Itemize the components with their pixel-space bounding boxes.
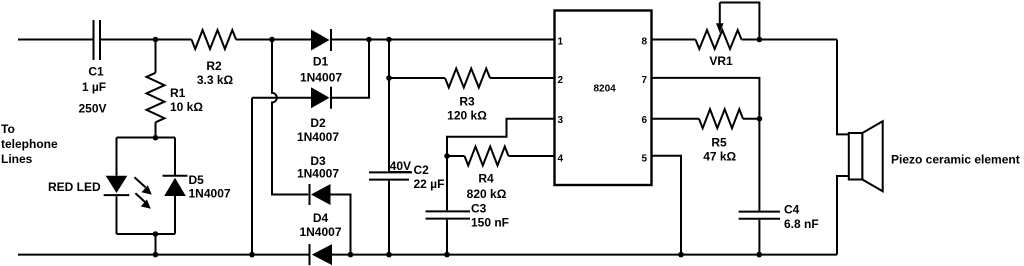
svg-text:250V: 250V <box>78 102 106 116</box>
resistor R4 <box>465 147 509 202</box>
wire LED box bottom rail <box>117 233 176 235</box>
svg-text:D4: D4 <box>313 211 329 225</box>
svg-text:6: 6 <box>641 115 647 126</box>
svg-text:120 kΩ: 120 kΩ <box>447 109 487 123</box>
capacitor C4 6.8nF <box>739 119 819 255</box>
wire R4 left lead <box>447 155 465 157</box>
node label To telephone Lines <box>1 122 58 166</box>
potentiometer VR1 <box>696 3 760 69</box>
node junction LED box top <box>153 135 159 141</box>
wire piezo top lead <box>837 40 849 135</box>
svg-text:3.3 kΩ: 3.3 kΩ <box>197 73 234 87</box>
svg-text:1N4007: 1N4007 <box>300 71 342 85</box>
op-amp U1 8204 IC body <box>555 11 652 186</box>
svg-text:150 nF: 150 nF <box>471 216 509 230</box>
svg-text:5: 5 <box>641 153 647 164</box>
wire pin 3 staircase to R4 node <box>447 119 555 156</box>
wire D2 cathode up to DC rail <box>331 40 369 98</box>
wire R5 to C4 node <box>743 118 759 120</box>
svg-text:D1: D1 <box>313 55 329 69</box>
svg-text:Lines: Lines <box>1 152 33 166</box>
wire top AC input <box>18 39 93 41</box>
capacitor C1 <box>78 20 106 116</box>
svg-text:RED LED: RED LED <box>48 180 101 194</box>
svg-text:R3: R3 <box>459 95 475 109</box>
svg-text:1N4007: 1N4007 <box>297 167 339 181</box>
node junction C3 bottom <box>444 252 450 258</box>
svg-text:1N4007: 1N4007 <box>297 130 339 144</box>
svg-text:7: 7 <box>641 75 647 86</box>
node junction R5 / pin7 / C4 <box>757 116 763 122</box>
wire AC1 drop with hop over D2 line <box>272 40 308 195</box>
svg-text:Piezo ceramic element: Piezo ceramic element <box>891 153 1020 167</box>
wire D2 anode from AC2 column <box>252 97 311 99</box>
node junction R4 / C3 <box>444 153 450 159</box>
node junction VR1 wiper tie <box>757 37 763 43</box>
resistor R3 <box>445 69 490 123</box>
diode D1 1N4007 <box>300 29 342 85</box>
svg-text:D2: D2 <box>310 116 326 130</box>
wire pin 8 to VR1 <box>652 39 696 41</box>
node junction D2 cathode riser <box>366 37 372 43</box>
svg-text:6.8 nF: 6.8 nF <box>784 217 819 231</box>
node junction top of bridge branch <box>269 37 275 43</box>
node junction AC2 column bottom <box>249 252 255 258</box>
svg-text:1 µF: 1 µF <box>82 80 106 94</box>
wire D1 to IC pin 1 <box>331 39 555 41</box>
svg-text:8: 8 <box>641 37 647 48</box>
wire C1 to R2 <box>100 39 192 41</box>
node junction C4 bottom <box>756 252 762 258</box>
svg-text:R2: R2 <box>206 59 222 73</box>
svg-text:C2: C2 <box>414 163 430 177</box>
wire R1 branch top lead <box>155 40 157 73</box>
svg-text:4: 4 <box>558 153 564 164</box>
wire AC2 column down to bottom rail <box>251 98 253 255</box>
wire bottom rail AC2 <box>18 254 309 256</box>
svg-text:2: 2 <box>558 75 564 86</box>
diode D3 1N4007 <box>297 154 339 205</box>
wire VR1 to piezo <box>742 39 838 41</box>
svg-text:R4: R4 <box>478 172 494 186</box>
wire pin 6 to R5 <box>652 118 700 120</box>
svg-text:R5: R5 <box>711 136 727 150</box>
node junction top of R1 branch <box>153 37 159 43</box>
LED light arrows <box>134 177 151 209</box>
wire R4 to pin 4 <box>509 155 555 157</box>
piezo ceramic element speaker <box>849 121 1020 191</box>
node junction pin5 drop <box>678 252 684 258</box>
svg-text:40V: 40V <box>390 159 411 173</box>
wire piezo bottom lead <box>837 176 849 255</box>
node junction LED box bottom <box>153 231 159 237</box>
svg-text:47 kΩ: 47 kΩ <box>703 150 736 164</box>
wire pin 7 over and down <box>652 78 760 119</box>
wire C2 branch vertical <box>388 40 390 172</box>
LED red indicator <box>48 138 129 235</box>
wire bottom DC rail <box>332 254 837 256</box>
node junction D3 drop <box>348 252 354 258</box>
node junction C2 branch <box>386 37 392 43</box>
resistor R5 <box>699 109 743 163</box>
svg-text:D5: D5 <box>189 173 205 187</box>
resistor R1 <box>147 73 204 123</box>
diode D5 1N4007 <box>163 138 231 235</box>
svg-text:1: 1 <box>558 37 564 48</box>
svg-text:3: 3 <box>558 115 564 126</box>
resistor R2 <box>192 30 237 87</box>
svg-text:C3: C3 <box>471 202 487 216</box>
wire LED box to bottom rail <box>155 234 157 255</box>
wire LED box top rail <box>117 137 176 139</box>
svg-text:22 µF: 22 µF <box>414 177 445 191</box>
svg-text:1N4007: 1N4007 <box>299 225 341 239</box>
diode D2 1N4007 <box>297 87 339 144</box>
svg-text:820 kΩ: 820 kΩ <box>467 187 507 201</box>
svg-text:VR1: VR1 <box>709 54 733 68</box>
svg-text:C4: C4 <box>784 202 800 216</box>
node junction C2 bottom <box>386 252 392 258</box>
svg-text:To: To <box>1 122 15 136</box>
node junction R3 tap <box>386 75 392 81</box>
wire R2 to D1 <box>236 39 311 41</box>
svg-text:10 kΩ: 10 kΩ <box>170 100 203 114</box>
diode D4 1N4007 <box>299 211 341 265</box>
svg-text:8204: 8204 <box>594 83 617 94</box>
wire R3 line to IC pin 2 <box>389 77 445 79</box>
wire R1 to LED box <box>155 122 157 137</box>
wire pin 5 to bottom rail <box>652 156 682 255</box>
capacitor C2 22uF <box>369 159 444 255</box>
wire D3 anode to bottom rail <box>331 195 351 255</box>
svg-text:R1: R1 <box>170 86 186 100</box>
svg-text:C1: C1 <box>88 65 104 79</box>
svg-text:1N4007: 1N4007 <box>189 187 231 201</box>
wire R3 to pin 2 <box>490 77 555 79</box>
node junction bottom of LED branch <box>153 252 159 258</box>
svg-text:telephone: telephone <box>1 137 58 151</box>
capacitor C3 150nF <box>426 156 510 255</box>
